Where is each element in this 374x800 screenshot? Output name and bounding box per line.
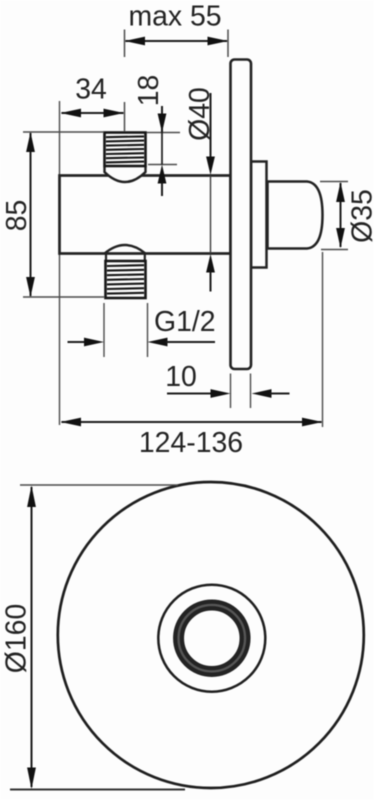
svg-text:max 55: max 55 bbox=[128, 1, 221, 33]
leader tail below bbox=[161, 183, 163, 196]
arrowhead down bbox=[158, 114, 167, 133]
leader below body bbox=[210, 272, 212, 292]
arrowhead pointing left bbox=[148, 338, 168, 347]
dimension line bbox=[62, 421, 322, 423]
extension line plate right face bbox=[250, 374, 252, 409]
extension line spout top bbox=[320, 181, 348, 183]
extension line at plate face bbox=[227, 30, 229, 58]
bottom outlet nipple G1/2: thread block bbox=[106, 261, 146, 298]
svg-text:34: 34 bbox=[75, 74, 107, 106]
dimension line segment of Ø40 passing through body bbox=[210, 176, 212, 254]
leader above body bbox=[210, 93, 212, 157]
bottom outlet nipple G1/2: neck dome bbox=[105, 245, 146, 261]
arrowhead up bbox=[336, 182, 345, 202]
dimension 10 (wall plate thickness) bbox=[165, 361, 289, 408]
arrowhead left bbox=[61, 418, 82, 427]
mid-gray sheen inside ring bbox=[179, 605, 246, 672]
dimension line bbox=[126, 40, 228, 42]
dimension line bbox=[62, 112, 124, 114]
bottom nipple thread ridges bbox=[107, 265, 144, 293]
arrowhead pointing right bbox=[84, 338, 104, 347]
leader left bbox=[167, 393, 212, 395]
extension line: body left edge extended down (for dims 34 and 124-136) bbox=[59, 101, 61, 425]
extension tick at thread top bbox=[147, 132, 181, 134]
dimension 34 (body edge to nipple axis) bbox=[61, 74, 125, 132]
arrowhead up bbox=[158, 165, 167, 184]
svg-text:G1/2: G1/2 bbox=[154, 306, 216, 338]
extension line thread left bbox=[103, 303, 105, 357]
leader right bbox=[166, 341, 215, 343]
spout pipe Ø35 with rounded end bbox=[268, 182, 323, 249]
dimension Ø40 (body diameter) bbox=[184, 87, 216, 291]
arrowhead up at body bottom bbox=[206, 254, 215, 273]
extension line bottom tangent bbox=[10, 789, 185, 791]
dimension max 55 (axis to wall) bbox=[125, 1, 229, 58]
dimension Ø160 (escutcheon diameter) bbox=[0, 485, 185, 790]
arrowhead down at body top bbox=[206, 157, 215, 176]
extension line nipple axis bbox=[124, 102, 126, 131]
extension line at nipple axis bbox=[124, 30, 126, 58]
top nipple thread ridges bbox=[106, 136, 144, 162]
arrowhead up bbox=[27, 486, 36, 508]
extension line thread right bbox=[147, 303, 149, 357]
dimension line bbox=[31, 487, 33, 787]
svg-text:10: 10 bbox=[165, 361, 197, 393]
arrowhead right bbox=[208, 37, 229, 46]
arrowhead left bbox=[61, 109, 82, 118]
leader right bbox=[270, 393, 290, 395]
arrowhead pointing right bbox=[211, 389, 231, 398]
dimension Ø35 (spout diameter) bbox=[320, 182, 374, 250]
arrowhead down bbox=[27, 768, 36, 790]
arrowhead right bbox=[104, 109, 125, 118]
arrowhead pointing left bbox=[252, 389, 272, 398]
dimension line bbox=[30, 133, 32, 296]
arrowhead left bbox=[125, 37, 146, 46]
leader above bbox=[161, 106, 163, 133]
extension line plate left face bbox=[230, 374, 232, 409]
extension line bottom bbox=[23, 296, 104, 298]
svg-text:Ø35: Ø35 bbox=[346, 189, 374, 243]
svg-text:Ø160: Ø160 bbox=[0, 604, 32, 673]
extension line spout bottom bbox=[321, 249, 348, 251]
dimension line bbox=[340, 183, 342, 247]
extension line from spout end bbox=[322, 252, 324, 427]
dimension G1/2 (thread size of bottom nipple) bbox=[68, 303, 216, 357]
extension tick at thread bottom bbox=[148, 164, 177, 166]
svg-text:85: 85 bbox=[1, 200, 33, 232]
leader left bbox=[68, 341, 87, 343]
dimension 85 (overall height over nipples) bbox=[1, 132, 104, 297]
dimension 18 (thread length of top nipple) bbox=[133, 75, 180, 196]
svg-text:18: 18 bbox=[133, 75, 165, 107]
collar between wall plate and spout bbox=[251, 162, 267, 268]
top inlet nipple G1/2: neck dome bbox=[105, 167, 146, 182]
pipe socket dark ring bbox=[179, 605, 246, 672]
svg-text:124-136: 124-136 bbox=[139, 427, 243, 459]
extension line top tangent bbox=[20, 484, 178, 486]
dimension 124-136 (overall depth range) bbox=[61, 252, 323, 459]
arrowhead right bbox=[302, 418, 323, 427]
dimension line between ticks bbox=[161, 133, 163, 165]
arrowhead up bbox=[26, 132, 35, 152]
top inlet nipple G1/2: thread block bbox=[105, 133, 146, 167]
arrowhead down bbox=[336, 228, 345, 248]
wall plate / escutcheon (side view, thickness 10) bbox=[231, 60, 252, 370]
arrowhead down bbox=[26, 277, 35, 297]
extension line top bbox=[23, 131, 104, 133]
raised boss circle bbox=[158, 585, 265, 692]
valve body (horizontal pipe Ø40, side view) bbox=[60, 176, 231, 254]
escutcheon disc Ø160 bbox=[58, 482, 364, 788]
